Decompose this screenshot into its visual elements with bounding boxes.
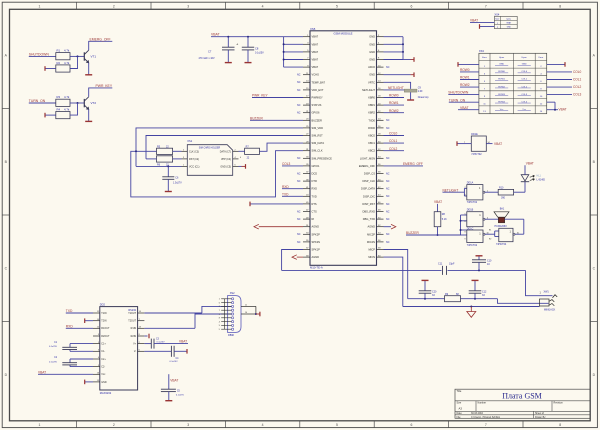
power net label VBAT rail: [211, 33, 220, 37]
GSM module XS5: [297, 27, 390, 270]
svg-text:PWR_KEY: PWR_KEY: [96, 84, 113, 88]
svg-text:NC: NC: [386, 233, 390, 236]
svg-text:NC: NC: [386, 195, 390, 198]
svg-text:MICP: MICP: [369, 248, 376, 252]
wire inverter output to buzzer: [515, 219, 524, 234]
power VBAT at DD1E pin 14: [494, 142, 502, 146]
svg-text:NC: NC: [297, 74, 301, 77]
svg-text:NC: NC: [386, 203, 390, 206]
svg-text:6: 6: [464, 221, 465, 223]
capacitor C7 470mkF: [199, 37, 240, 63]
net label COL1 at XS3: [547, 77, 582, 81]
svg-text:0.1x25V: 0.1x25V: [157, 341, 166, 343]
ground C12: [472, 279, 479, 281]
svg-text:NC: NC: [386, 210, 390, 213]
svg-text:E1: E1: [489, 229, 491, 231]
svg-text:8: 8: [559, 5, 561, 9]
power part DD1E: [457, 133, 493, 156]
svg-text:10: 10: [245, 312, 247, 314]
svg-text:DISP_CS: DISP_CS: [364, 172, 375, 176]
svg-text:E2: E2: [489, 239, 491, 241]
svg-text:V-: V-: [134, 350, 136, 353]
net label VBAT at XS3 pin 13: [458, 106, 479, 110]
svg-text:C11: C11: [438, 262, 443, 265]
svg-text:5: 5: [336, 5, 338, 9]
svg-text:COL1: COL1: [573, 77, 582, 81]
resistor R6: [157, 156, 173, 167]
svg-text:BUZZER: BUZZER: [250, 116, 263, 120]
wire VBAT bus to module VBAT pins: [283, 37, 303, 67]
svg-text:KBR0: KBR0: [368, 96, 375, 100]
svg-text:TXD: TXD: [312, 194, 317, 198]
AGND arrow at module pin 59: [292, 255, 303, 260]
net label VBAT at DD2 Vcc: [38, 370, 93, 374]
svg-text:DD1C: DD1C: [467, 227, 474, 230]
net label VBAT at XS4: [470, 19, 494, 23]
power port SIM GND: [242, 164, 246, 169]
wire R8 to BUZZER net: [437, 227, 439, 235]
svg-text:VCHG: VCHG: [312, 73, 320, 77]
svg-text:SIM_RST: SIM_RST: [312, 134, 324, 138]
svg-text:4: 4: [219, 321, 220, 323]
svg-text:DD1B: DD1B: [467, 209, 474, 212]
svg-text:VBAT: VBAT: [312, 65, 319, 69]
svg-text:ROW0: ROW0: [460, 68, 470, 72]
svg-text:NC: NC: [386, 157, 390, 160]
svg-text:SPK1P: SPK1P: [312, 248, 321, 252]
svg-text:SIM_VDD: SIM_VDD: [312, 126, 324, 130]
svg-text:4: 4: [235, 157, 236, 159]
svg-text:KBC0: KBC0: [368, 134, 375, 138]
net label NETLIGHT at module pin 16: [384, 86, 405, 90]
svg-text:R1: R1: [57, 49, 61, 53]
svg-text:VDD_EXT: VDD_EXT: [312, 88, 324, 92]
svg-text:GND: GND: [369, 50, 375, 54]
svg-text:R4: R4: [57, 108, 61, 112]
svg-text:7: 7: [219, 310, 220, 312]
net label RXD at DD2: [66, 324, 93, 328]
svg-text:9: 9: [219, 325, 220, 327]
svg-text:Revision: Revision: [554, 402, 564, 405]
net label COL2 at module pin 32: [384, 147, 405, 151]
svg-text:RTS: RTS: [312, 202, 317, 206]
svg-text:8: 8: [219, 318, 220, 320]
power VBAT at R8: [434, 200, 442, 212]
svg-text:0.1x25V: 0.1x25V: [49, 346, 58, 348]
svg-text:C8: C8: [255, 47, 259, 51]
net label COL0 at XS3: [547, 70, 582, 74]
junction ground on line3: [470, 306, 472, 308]
svg-text:SHUTDOWN: SHUTDOWN: [448, 91, 469, 95]
LED HL1: [521, 165, 545, 181]
svg-text:ROW2: ROW2: [460, 83, 470, 87]
svg-text:0.1x25V: 0.1x25V: [255, 52, 264, 55]
svg-text:9: 9: [464, 238, 465, 240]
svg-text:6: 6: [235, 165, 236, 167]
svg-text:4.7k: 4.7k: [64, 95, 70, 99]
svg-text:GPIO6: GPIO6: [312, 111, 320, 115]
net label ROW1 at XS3: [460, 76, 479, 80]
wire SHUTDOWN to R1: [29, 55, 56, 57]
svg-text:GSM MODULE: GSM MODULE: [333, 31, 352, 35]
svg-text:VBAT: VBAT: [506, 22, 512, 25]
svg-text:C1-: C1-: [101, 350, 105, 353]
svg-text:6: 6: [410, 5, 412, 9]
svg-text:5: 5: [219, 329, 220, 331]
svg-text:6: 6: [410, 423, 412, 427]
svg-text:MICN: MICN: [368, 255, 375, 259]
svg-text:NC: NC: [386, 188, 390, 191]
svg-text:XS1: XS1: [187, 139, 192, 143]
svg-text:XS4: XS4: [494, 13, 499, 17]
resistor R1: [56, 49, 70, 60]
ground arrow line3: [467, 307, 476, 318]
svg-text:COL0: COL0: [389, 132, 398, 136]
svg-text:5: 5: [464, 213, 465, 215]
svg-text:AGND: AGND: [368, 225, 376, 229]
ground C6: [165, 191, 172, 193]
net label ROW2 at XS3: [460, 83, 479, 87]
svg-text:VBAT: VBAT: [312, 35, 319, 39]
resistor R2: [56, 61, 70, 72]
svg-text:Конт: Конт: [495, 19, 499, 21]
svg-text:VBAT: VBAT: [526, 161, 534, 165]
wire VT1 collector to EMERG_OFF: [89, 41, 113, 50]
svg-text:NC: NC: [297, 210, 301, 213]
power port at XS3 pin 1: [458, 62, 479, 67]
svg-text:VBAT: VBAT: [312, 50, 319, 54]
svg-text:8: 8: [464, 232, 465, 234]
svg-text:NETLIGHT: NETLIGHT: [362, 88, 375, 92]
wire SIM DATA to R7: [239, 150, 245, 152]
svg-text:ROW1: ROW1: [460, 76, 470, 80]
wire SIM_DATA pin 29 to R7: [260, 143, 304, 151]
svg-text:SHUTDOWN: SHUTDOWN: [29, 52, 50, 56]
net label COL0 at module pin 28: [384, 132, 405, 136]
svg-text:ADC0: ADC0: [368, 65, 375, 69]
svg-text:4.7k: 4.7k: [64, 49, 70, 53]
svg-text:NC: NC: [297, 89, 301, 92]
ground C20: [422, 279, 429, 281]
svg-text:7: 7: [485, 423, 487, 427]
wire T1OUT to DB9: [144, 306, 231, 313]
svg-text:VRTC: VRTC: [368, 80, 375, 84]
svg-text:BUZZER: BUZZER: [312, 118, 323, 122]
net label VBAT at XS3 pin 14: [559, 108, 567, 112]
ground C9: [407, 99, 414, 101]
ground C8: [245, 62, 252, 64]
svg-text:L-914ID: L-914ID: [537, 179, 546, 182]
svg-text:R1IN: R1IN: [131, 327, 137, 330]
net label EMERG_OFF: [90, 37, 111, 41]
resistor R4: [56, 108, 70, 119]
svg-text:1: 1: [183, 165, 184, 167]
svg-text:M10-TE-A: M10-TE-A: [310, 266, 323, 270]
junction base VT2: [77, 102, 79, 104]
svg-text:C7: C7: [208, 49, 212, 53]
svg-text:Конт: Конт: [482, 57, 487, 59]
power port at XS4 pin 2: [480, 24, 495, 29]
capacitor C1: [49, 342, 93, 352]
capacitor C6: [162, 166, 182, 191]
connector XS4 table: [494, 13, 517, 29]
svg-text:DBG_RXD: DBG_RXD: [362, 210, 375, 214]
svg-text:NC: NC: [297, 180, 301, 183]
wire R1IN to DB9: [144, 314, 231, 328]
wire R4 to base junction VT2: [70, 103, 78, 115]
buzzer BA1: [494, 208, 524, 228]
svg-text:COL3: COL3: [573, 93, 582, 97]
transistor VT1: [84, 50, 96, 63]
svg-text:2: 2: [219, 306, 220, 308]
wire BUZZER to gate inputs: [460, 215, 467, 235]
RS232 driver DD2 MAX3232: [93, 303, 144, 396]
net label ROW2 at module pin 22: [384, 109, 405, 113]
svg-text:Size: Size: [457, 402, 462, 405]
svg-text:NC: NC: [297, 233, 301, 236]
connector XS3 keypad table: [479, 49, 547, 114]
capacitor C20: [419, 281, 437, 299]
svg-text:SIM_CLK: SIM_CLK: [312, 149, 323, 153]
svg-text:NETLIGHT: NETLIGHT: [388, 86, 404, 90]
wire audio line1 SPK: [282, 270, 553, 295]
junction C7 on rail: [227, 36, 229, 38]
capacitor C11 15pF: [438, 262, 455, 275]
net label ROW0 at module pin 18: [384, 94, 405, 98]
wire R5 to SIM CLK: [173, 150, 182, 152]
svg-text:NC: NC: [386, 172, 390, 175]
svg-text:GND: GND: [369, 42, 375, 46]
svg-text:LIGHT_MON: LIGHT_MON: [360, 156, 375, 160]
svg-text:470 mkF x 16V: 470 mkF x 16V: [199, 57, 215, 60]
svg-text:VT1: VT1: [91, 55, 97, 59]
svg-text:VBAT: VBAT: [460, 106, 469, 110]
svg-text:Title: Title: [457, 389, 462, 393]
svg-text:Плата GSM: Плата GSM: [502, 392, 542, 401]
svg-text:KBC2: KBC2: [368, 149, 375, 153]
svg-text:VBAT: VBAT: [179, 340, 187, 344]
svg-text:VBAT: VBAT: [312, 58, 319, 62]
svg-text:R2IN: R2IN: [131, 335, 137, 338]
svg-text:DCD: DCD: [312, 172, 318, 176]
resistor R7: [245, 145, 260, 159]
net label PWR_KEY: [96, 84, 113, 88]
svg-text:390: 390: [501, 196, 506, 199]
svg-text:VCC (C1): VCC (C1): [189, 165, 200, 168]
net label RXD at module pin 41: [282, 185, 303, 189]
svg-text:NC: NC: [297, 218, 301, 221]
svg-text:A3: A3: [459, 407, 463, 411]
svg-text:COL3: COL3: [282, 162, 291, 166]
svg-text:DATA (C7): DATA (C7): [220, 150, 231, 153]
svg-text:R10: R10: [499, 187, 504, 190]
svg-text:C2+: C2+: [101, 358, 106, 361]
svg-text:1: 1: [38, 423, 40, 427]
svg-text:C2-: C2-: [101, 366, 105, 369]
svg-text:DBG_TXD: DBG_TXD: [363, 217, 375, 221]
audio jack XW1: [540, 291, 558, 312]
resistor R9: [445, 293, 461, 302]
wire SIM_RST pin 27 to R6: [146, 136, 303, 159]
logic gate DD1B: [464, 209, 488, 227]
svg-text:TXD: TXD: [66, 309, 73, 313]
svg-text:14: 14: [488, 142, 490, 144]
wire SPK1P pin 57 to audio line: [282, 250, 303, 271]
svg-text:R2: R2: [57, 61, 61, 65]
svg-text:GND: GND: [507, 27, 512, 29]
svg-text:DD1A: DD1A: [467, 182, 474, 185]
net label SHUTDOWN: [29, 52, 50, 56]
svg-text:8: 8: [559, 423, 561, 427]
svg-text:EMERG_OFF: EMERG_OFF: [403, 162, 423, 166]
wire MICN pin 60 to jack sleeve line: [384, 257, 403, 306]
wire VT2 emitter to ground: [88, 109, 90, 121]
junction SIM_CLK crossing: [135, 150, 137, 152]
svg-text:VBAT: VBAT: [312, 42, 319, 46]
svg-text:File:: File:: [457, 416, 462, 419]
svg-text:RI: RI: [312, 217, 315, 221]
svg-text:VBAT: VBAT: [470, 19, 478, 23]
svg-text:0.1x25V: 0.1x25V: [49, 362, 58, 364]
resistor R10: [498, 187, 513, 200]
svg-text:DD2: DD2: [100, 303, 106, 307]
ground C10: [476, 255, 483, 257]
junction base VT1: [77, 55, 79, 57]
svg-text:0.1x25V: 0.1x25V: [176, 395, 185, 397]
svg-text:1: 1: [219, 299, 220, 301]
power port GND pins 2-8: [411, 57, 415, 62]
svg-text:BA1: BA1: [500, 208, 505, 211]
svg-text:SPK2P: SPK2P: [312, 232, 321, 236]
svg-text:3: 3: [219, 314, 220, 316]
svg-text:NC: NC: [386, 241, 390, 244]
svg-text:R2OUT: R2OUT: [101, 335, 110, 338]
net label ROW1 at module pin 20: [384, 101, 405, 105]
svg-text:GND: GND: [369, 35, 375, 39]
capacitor C4: [144, 346, 187, 363]
svg-text:RXD: RXD: [312, 187, 318, 191]
svg-text:SIM CARD HOLDER: SIM CARD HOLDER: [199, 146, 221, 149]
svg-text:PWRKEY: PWRKEY: [312, 96, 324, 100]
power VBAT at LED: [526, 161, 534, 165]
wire DD1B output to buzzer: [485, 218, 498, 220]
svg-text:5.1K: 5.1K: [442, 218, 447, 221]
junction C8 on rail: [247, 36, 249, 38]
wire VBAT to SIM VCC: [136, 165, 182, 167]
ground C5: [165, 400, 172, 402]
svg-text:GPIO1: GPIO1: [312, 164, 320, 168]
svg-text:CTS: CTS: [312, 210, 317, 214]
svg-text:DISP_DATA: DISP_DATA: [361, 187, 375, 191]
svg-text:ROW1: ROW1: [389, 101, 399, 105]
svg-text:Цепь: Цепь: [507, 19, 511, 21]
svg-text:NC: NC: [297, 241, 301, 244]
power port at XS3 pin 2: [547, 62, 565, 67]
svg-text:BUZZER: BUZZER: [406, 231, 419, 235]
wire R6 to SIM RST: [173, 158, 182, 160]
svg-text:DD1E: DD1E: [471, 133, 478, 136]
title block: [455, 389, 590, 419]
wire XS3 pins 12-14 to VBAT: [547, 102, 558, 111]
wire R1 to VT1 base: [70, 55, 84, 57]
svg-text:NC: NC: [297, 157, 301, 160]
svg-text:NC: NC: [386, 119, 390, 122]
svg-text:MIC2N: MIC2N: [367, 240, 375, 244]
power port at DD2 GND: [85, 380, 93, 385]
SIM VPP stub: [240, 157, 241, 159]
ionistor C9 1.0F: [404, 87, 429, 100]
wire DD1A output to R10: [485, 191, 498, 193]
ground C7: [225, 62, 232, 64]
svg-text:VPP (C4): VPP (C4): [221, 158, 231, 161]
wire VRTC pin 14 to C9: [384, 82, 411, 89]
svg-text:AGND: AGND: [312, 255, 320, 259]
svg-text:EMERG_OFF: EMERG_OFF: [90, 37, 111, 41]
svg-text:15pF: 15pF: [449, 262, 455, 265]
net label COL3 at module pin 35: [282, 162, 303, 166]
wire R3 to VT2 base: [70, 102, 84, 104]
wire VBAT rail: [211, 36, 284, 38]
svg-text:ROW2: ROW2: [389, 109, 399, 113]
net label COL3 at XS3: [547, 93, 582, 97]
net label COL2 at XS3: [547, 85, 582, 89]
svg-text:4.7k: 4.7k: [64, 61, 70, 65]
svg-text:HL1: HL1: [537, 174, 542, 177]
svg-text:NC: NC: [386, 66, 390, 69]
svg-text:DB9F: DB9F: [228, 334, 235, 337]
wire VT2 collector to PWR_KEY: [89, 88, 113, 97]
power port at DD1E pin 7: [456, 141, 458, 146]
svg-text:VBAT: VBAT: [211, 33, 220, 37]
AGND arrow at module pin 52: [384, 224, 396, 229]
svg-text:MINIJACK: MINIJACK: [544, 309, 556, 312]
svg-text:NC: NC: [386, 218, 390, 221]
svg-text:R1OUT: R1OUT: [101, 327, 110, 330]
wire R6 input: [146, 158, 157, 160]
capacitor C8 0.1uF: [242, 37, 264, 63]
wire mic line2: [408, 299, 549, 304]
svg-text:3: 3: [464, 194, 465, 196]
svg-text:VBAT: VBAT: [494, 142, 502, 146]
svg-text:7: 7: [485, 5, 487, 9]
wire DD1C output to inverter: [485, 229, 499, 240]
svg-text:COL1: COL1: [389, 139, 398, 143]
inverter DD2A 74HCT04: [496, 228, 519, 246]
svg-text:TURN_ON: TURN_ON: [29, 99, 46, 103]
capacitor C2: [49, 357, 93, 366]
svg-text:DISP_RST: DISP_RST: [362, 202, 375, 206]
svg-text:TXD0: TXD0: [368, 118, 375, 122]
resistor R3: [56, 95, 70, 106]
svg-text:Number: Number: [478, 402, 487, 405]
svg-text:XS3: XS3: [479, 49, 484, 53]
net label BUZZER at gates: [406, 231, 461, 235]
svg-text:6: 6: [219, 302, 220, 304]
wire SIM_VDD pin 25 to SIM holder VCC: [136, 128, 303, 166]
svg-text:KBC1: KBC1: [368, 141, 375, 145]
ground VT2: [85, 120, 92, 122]
net label VBAT at C3: [179, 340, 187, 344]
junction C20 on line2: [424, 298, 426, 300]
svg-text:T2IN: T2IN: [101, 320, 106, 323]
connector XS2 DB9: [219, 291, 241, 337]
svg-text:SIM_PRESENCE: SIM_PRESENCE: [312, 156, 333, 160]
resistor R8: [434, 212, 447, 227]
net label NETLIGHT at DD1A: [443, 188, 465, 192]
svg-text:1: 1: [38, 5, 40, 9]
svg-text:2: 2: [113, 423, 115, 427]
svg-text:DISP_D/C: DISP_D/C: [363, 194, 375, 198]
